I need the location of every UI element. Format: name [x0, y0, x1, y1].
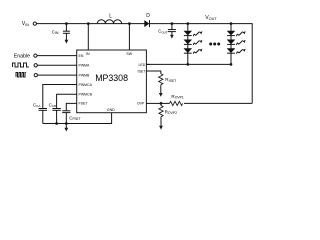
wire VOUT right edge down [251, 23, 253, 103]
LED D2c [227, 48, 246, 54]
node CIN [65, 22, 68, 25]
wire OVP feedback [184, 102, 252, 104]
PWM source A symbol [12, 63, 29, 67]
svg-text:MP3308: MP3308 [95, 73, 128, 83]
wire CCA to gnd rail [42, 110, 44, 123]
wire diode to VOUT corner [149, 23, 252, 25]
svg-text:EN: EN [79, 54, 84, 58]
svg-text:SW: SW [126, 52, 132, 56]
LED D1b [184, 40, 203, 46]
wire LED return rail [146, 63, 232, 65]
svg-text:PWMA: PWMA [79, 64, 91, 68]
node string 2 bottom [230, 63, 233, 66]
svg-text:LED: LED [138, 63, 145, 67]
svg-text:PWMCA: PWMCA [79, 83, 93, 87]
LED D2b [227, 40, 246, 46]
node CCB gnd [55, 122, 58, 125]
resistor ROVP1 [161, 94, 184, 106]
node COUT [171, 22, 174, 25]
node LED string 1 top [186, 22, 189, 25]
wire to SW pin [128, 24, 130, 50]
LED D2a [227, 31, 246, 37]
wire LED pin [146, 63, 150, 65]
svg-text:GND: GND [107, 108, 115, 112]
wire LED string 2 [230, 24, 232, 65]
wire VIN rail to diode [36, 23, 144, 25]
capacitor CFSET [62, 111, 80, 121]
svg-text:OVP: OVP [137, 102, 145, 106]
node OVP [160, 102, 163, 105]
wire PWMB [37, 74, 76, 76]
capacitor CCB [49, 102, 61, 110]
ground (ROVP2) [159, 117, 163, 130]
wire PWMA [37, 64, 76, 66]
diode D [144, 13, 150, 27]
ground (RISET) [159, 86, 163, 97]
resistor RISET [159, 74, 176, 86]
svg-text:L: L [109, 13, 112, 19]
node SW [128, 22, 131, 25]
wire ISET pin [146, 71, 160, 74]
svg-text:D: D [146, 13, 150, 19]
LED D1c [184, 48, 203, 54]
wire PWMCA to CCA [43, 85, 77, 109]
ground (rail) [64, 124, 68, 132]
wire FSET to CFSET [66, 103, 76, 110]
terminal Enable [14, 53, 37, 59]
svg-text:PWMCB: PWMCB [79, 92, 93, 96]
capacitor COUT [158, 24, 176, 35]
wire ground rail / GND pin [43, 113, 112, 124]
inductor L [97, 13, 121, 23]
PWM source B symbol [16, 73, 26, 77]
svg-text:PWMB: PWMB [79, 73, 91, 77]
resistor ROVP2 [159, 103, 177, 116]
svg-text:ISET: ISET [138, 69, 147, 73]
wire Enable to EN [37, 55, 77, 57]
capacitor CCA [33, 102, 47, 110]
svg-text:IN: IN [86, 52, 90, 56]
capacitor CIN [52, 24, 70, 36]
wire LED string 1 [187, 24, 189, 65]
wire to IN pin [87, 24, 89, 50]
IC U1 MP3308 [77, 50, 147, 113]
node LED string 2 top [230, 22, 233, 25]
ground (COUT) [170, 32, 174, 39]
terminal VIN [22, 21, 37, 27]
node string 1 bottom [186, 63, 189, 66]
ground (CIN) [65, 33, 69, 43]
svg-text:Enable: Enable [14, 53, 30, 59]
label VOUT [205, 15, 217, 21]
svg-text:FSET: FSET [79, 102, 89, 106]
wire PWMCB to CCB [57, 94, 77, 108]
wire OVP pin [146, 102, 161, 104]
dots more strings [209, 43, 220, 46]
wire CCB to gnd rail [56, 110, 58, 123]
wire CFSET to gnd rail [65, 113, 67, 124]
terminal PWMA [34, 64, 37, 67]
LED D1a [184, 31, 203, 37]
node CFSET gnd [65, 122, 68, 125]
terminal PWMB [34, 73, 37, 76]
node IN [87, 22, 90, 25]
